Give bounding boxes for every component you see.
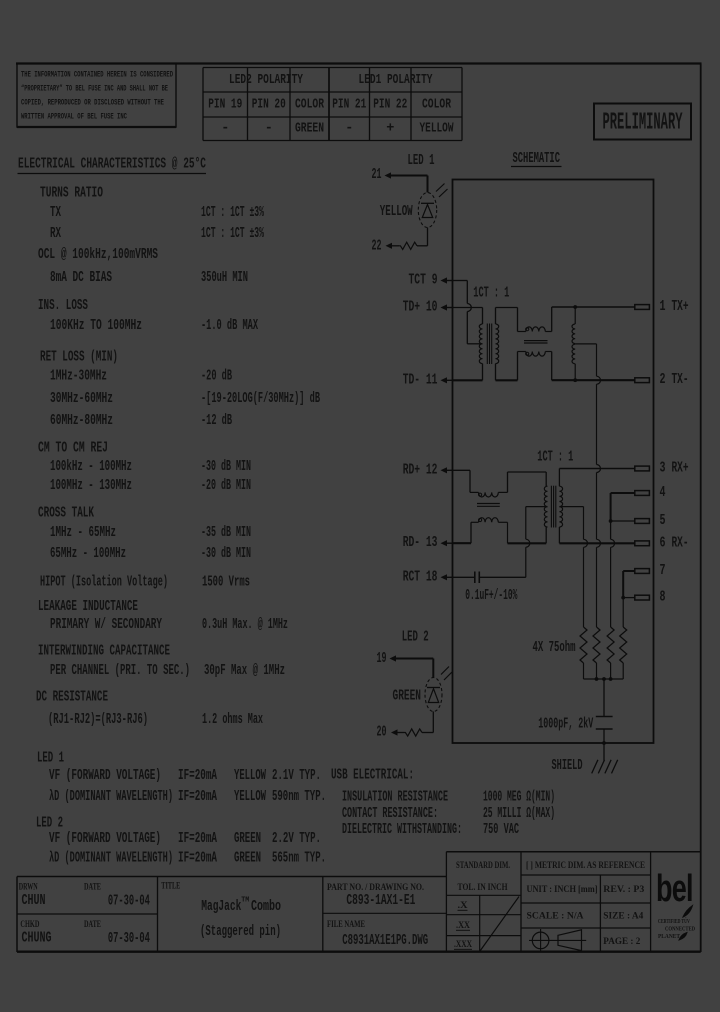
CMC2 core: [477, 503, 500, 505]
svg-text:-35 dB MIN: -35 dB MIN: [201, 525, 251, 541]
LED1 diode triangle: [422, 205, 432, 218]
wire to pin 3 pad: [559, 468, 634, 470]
svg-text:TOL. IN INCH: TOL. IN INCH: [458, 882, 508, 892]
svg-text:-20 dB: -20 dB: [201, 369, 232, 385]
svg-text:YELLOW: YELLOW: [234, 768, 266, 784]
center tap down: [525, 507, 527, 540]
svg-text:PRIMARY W/ SECONDARY: PRIMARY W/ SECONDARY: [50, 617, 162, 633]
svg-text:4X 75ohm: 4X 75ohm: [533, 640, 576, 656]
svg-text:100MHz - 130MHz: 100MHz - 130MHz: [50, 478, 132, 494]
LED2 light arrow 1: [441, 667, 449, 675]
svg-text:CERTIFIED TÜV: CERTIFIED TÜV: [658, 918, 690, 925]
T1 secondary winding: [496, 324, 499, 364]
pin 7 pad: [635, 569, 650, 574]
svg-text:SHIELD: SHIELD: [552, 758, 583, 774]
svg-text:INTERWINDING CAPACITANCE: INTERWINDING CAPACITANCE: [38, 644, 170, 660]
svg-text:TD- 11: TD- 11: [403, 372, 438, 388]
svg-text:+: +: [386, 122, 394, 137]
pin4 down to pin5 junction: [610, 493, 612, 521]
LED2 diode triangle: [428, 689, 438, 703]
svg-text:PIN 22: PIN 22: [373, 98, 407, 113]
resistor R3 bottom lead: [610, 663, 612, 679]
PRELIMINARY stamp box: [594, 104, 691, 140]
svg-text:1000pF, 2kV: 1000pF, 2kV: [538, 717, 593, 733]
CMC1 top coil exit: [545, 331, 551, 333]
LED2 light arrow 2: [444, 672, 452, 680]
wire pin19 to LED2: [395, 658, 433, 660]
svg-text:LED 1: LED 1: [37, 751, 64, 767]
T1 secondary bottom down: [495, 364, 497, 381]
svg-text:LED 2: LED 2: [36, 816, 63, 832]
wire TCT9 down to center tap: [466, 312, 468, 344]
svg-text:SIZE : A4: SIZE : A4: [603, 911, 644, 921]
.XX underline: [456, 929, 470, 931]
pins4/5 termination to resistor R3: [610, 547, 612, 627]
svg-text:65MHz - 100MHz: 65MHz - 100MHz: [50, 546, 126, 562]
CMC1 phase dot bottom: [526, 352, 529, 355]
svg-text:RET LOSS (MIN): RET LOSS (MIN): [40, 350, 118, 366]
svg-text:WRITTEN APPROVAL OF BEL FUSE I: WRITTEN APPROVAL OF BEL FUSE INC: [21, 112, 127, 122]
title block horizontals: [17, 876, 446, 878]
wire box to shield ground: [603, 743, 605, 761]
svg-text:DRWN: DRWN: [19, 882, 38, 892]
svg-text:TD+ 10: TD+ 10: [403, 300, 438, 316]
svg-text:LED1 POLARITY: LED1 POLARITY: [359, 73, 434, 88]
capacitor C2 1000pF plates: [596, 716, 613, 718]
svg-text:FILE NAME: FILE NAME: [327, 919, 365, 929]
svg-text:RX: RX: [50, 226, 61, 242]
wire TD+10 to T1 primary top: [453, 307, 483, 309]
svg-text:GREEN: GREEN: [234, 851, 261, 867]
wire pin21 to LED1 anode: [390, 175, 428, 177]
autotransformer bottom lead: [574, 364, 576, 380]
svg-text:MagJack: MagJack: [201, 899, 241, 915]
svg-text:30pF Max @ 1MHz: 30pF Max @ 1MHz: [204, 663, 285, 679]
svg-text:25 MILLI Ω(MAX): 25 MILLI Ω(MAX): [483, 806, 555, 822]
resistor R2 bottom lead: [596, 663, 598, 679]
svg-text:THE INFORMATION CONTAINED HERE: THE INFORMATION CONTAINED HEREIN IS CONS…: [21, 70, 173, 80]
wire bus to capacitor C2: [603, 679, 605, 717]
wire capacitor to center tap: [479, 576, 526, 578]
T1 primary winding: [479, 324, 482, 364]
svg-text:CHKD: CHKD: [20, 919, 39, 929]
svg-text:8: 8: [660, 590, 666, 606]
wire pin 4 pad: [611, 492, 635, 494]
pin 8 pad: [635, 595, 650, 600]
pin RCT 18 arrow: [441, 574, 448, 580]
svg-text:IF=20mA: IF=20mA: [178, 789, 217, 805]
wire to pin 2 pad thick: [552, 379, 635, 381]
svg-text:100kHz - 100MHz: 100kHz - 100MHz: [50, 459, 132, 475]
svg-text:RX-: RX-: [672, 535, 689, 551]
junction pins 4-5: [609, 519, 613, 523]
termination wire down: [596, 473, 598, 540]
CMC1 bottom coil: [518, 351, 526, 353]
RD- up into CMC2 bottom coil: [470, 522, 472, 543]
svg-text:PRELIMINARY: PRELIMINARY: [603, 110, 683, 137]
svg-text:ELECTRICAL CHARACTERISTICS @ 2: ELECTRICAL CHARACTERISTICS @ 25°C: [18, 156, 206, 173]
svg-text:RD+ 12: RD+ 12: [403, 462, 438, 478]
wire down to LED1: [427, 176, 429, 193]
T2 secondary top up: [558, 469, 560, 487]
svg-text:GREEN: GREEN: [393, 689, 422, 705]
pin RD+ 12 arrow: [441, 467, 448, 473]
svg-text:8mA DC BIAS: 8mA DC BIAS: [50, 270, 112, 286]
junction shield box: [602, 741, 606, 745]
svg-text:PIN 20: PIN 20: [252, 98, 286, 113]
notice bottom thick edge: [17, 126, 176, 128]
svg-text:07-30-04: 07-30-04: [108, 931, 150, 947]
svg-text:TX+: TX+: [672, 299, 689, 315]
svg-text:1.2 ohms Max: 1.2 ohms Max: [202, 712, 263, 728]
svg-text:2.1V TYP.: 2.1V TYP.: [272, 768, 321, 784]
svg-text:VF (FORWARD VOLTAGE): VF (FORWARD VOLTAGE): [49, 831, 161, 847]
wire up to T1 primary bottom: [482, 364, 484, 381]
pin 22 arrow: [386, 243, 393, 249]
pin TCT 9 arrow: [441, 277, 448, 283]
svg-text:1MHz - 65MHz: 1MHz - 65MHz: [50, 525, 116, 541]
hop over TD+ wire: [467, 304, 471, 312]
svg-text:DATE: DATE: [84, 919, 101, 929]
svg-text:USB ELECTRICAL:: USB ELECTRICAL:: [331, 768, 414, 784]
svg-text:1000 MEG Ω(MIN): 1000 MEG Ω(MIN): [483, 789, 555, 805]
svg-text:6: 6: [660, 535, 666, 551]
wire TD-11 thick: [453, 379, 483, 381]
svg-text:1CT : 1CT ±3%: 1CT : 1CT ±3%: [201, 205, 264, 221]
svg-text:λD (DOMINANT WAVELENGTH): λD (DOMINANT WAVELENGTH): [49, 851, 173, 867]
LED1 series resistor: [399, 242, 417, 249]
CMC2 top coil exit: [498, 491, 507, 493]
termination wire down: [596, 384, 598, 464]
termination wire down: [596, 344, 598, 376]
CMC2 top coil: [479, 492, 499, 497]
svg-text:CONTACT RESISTANCE:: CONTACT RESISTANCE:: [342, 806, 438, 822]
svg-text:PER CHANNEL (PRI. TO SEC.): PER CHANNEL (PRI. TO SEC.): [50, 663, 190, 679]
svg-text:INS. LOSS: INS. LOSS: [38, 298, 88, 314]
wire TCT9 down: [466, 281, 468, 304]
wire LED2 to resistor: [432, 712, 434, 733]
pin RD+ 12 stub wire: [446, 469, 453, 471]
svg-text:4: 4: [660, 485, 666, 501]
svg-text:TM: TM: [241, 897, 249, 905]
resistor R1 bottom lead: [583, 663, 585, 679]
LED2 cathode bar: [427, 687, 440, 689]
svg-text:LED 1: LED 1: [408, 153, 435, 169]
termination bus wire: [584, 678, 624, 680]
connector shield outline box: [453, 180, 654, 744]
junction bus cap feed: [602, 677, 606, 681]
svg-text:1: 1: [660, 299, 666, 315]
TX autotransformer winding upper: [572, 324, 575, 344]
T2 primary center tap wire: [526, 506, 548, 508]
svg-text:“PROPRIETARY” TO BEL FUSE INC: “PROPRIETARY” TO BEL FUSE INC AND SHALL …: [21, 84, 168, 94]
CMC2 phase dot top: [479, 493, 482, 496]
third angle projection cone: [552, 939, 587, 941]
termination wire to resistor R2: [596, 547, 598, 627]
CMC2 bottom coil exit: [498, 521, 507, 523]
wire into CMC2 top coil: [470, 491, 479, 493]
svg-text:0.1uF+/-10%: 0.1uF+/-10%: [465, 588, 517, 604]
junction bus R3: [609, 677, 613, 681]
wire RD+12 horizontal: [453, 469, 471, 471]
LED polarity tables grid: [203, 67, 462, 69]
svg-text:TITLE: TITLE: [161, 880, 180, 890]
svg-text:1CT : 1: 1CT : 1: [473, 285, 509, 301]
pin 19 arrow: [390, 655, 397, 661]
pin TD- 11 stub wire: [446, 379, 453, 381]
svg-text:PIN 19: PIN 19: [208, 98, 242, 113]
wire pin 7 pad: [623, 570, 635, 572]
svg-text:TX-: TX-: [672, 372, 689, 388]
pin RD- 13 arrow: [441, 540, 448, 546]
svg-text:SCALE : N/A: SCALE : N/A: [527, 911, 585, 921]
svg-text:DIELECTRIC WITHSTANDING:: DIELECTRIC WITHSTANDING:: [342, 822, 462, 838]
down to T2 primary: [545, 472, 547, 486]
svg-text:IF=20mA: IF=20mA: [178, 768, 217, 784]
svg-text:-: -: [265, 122, 273, 137]
hop over pin6 wire: [611, 539, 615, 547]
pin 1 pad: [635, 305, 650, 310]
svg-text:REV. : P3: REV. : P3: [603, 884, 645, 894]
svg-text:Combo: Combo: [251, 899, 281, 915]
svg-text:.XXX: .XXX: [454, 939, 472, 949]
svg-text:RD- 13: RD- 13: [403, 535, 438, 551]
T2 secondary winding: [559, 486, 562, 527]
svg-text:GREEN: GREEN: [295, 122, 324, 137]
svg-text:INSULATION RESISTANCE: INSULATION RESISTANCE: [342, 789, 448, 805]
tolerance diagonal line: [480, 897, 519, 952]
svg-text:PIN 21: PIN 21: [332, 98, 366, 113]
T2 core: [550, 486, 552, 528]
svg-text:YELLOW: YELLOW: [380, 204, 413, 220]
pin 4 pad: [635, 491, 650, 496]
resistor R1 75ohm: [580, 627, 587, 663]
svg-text:COLOR: COLOR: [295, 98, 325, 113]
svg-text:1MHz-30MHz: 1MHz-30MHz: [50, 369, 107, 385]
wire resistor to pin20: [397, 732, 404, 734]
down to pin2 wire: [551, 352, 553, 381]
svg-text:GREEN: GREEN: [234, 831, 261, 847]
junction pin1/autotransformer: [573, 305, 577, 309]
svg-text:3: 3: [660, 461, 666, 477]
pin 3 pad: [635, 466, 650, 471]
T2 secondary center tap wire: [559, 506, 583, 508]
pin RD- 13 stub wire: [446, 542, 453, 544]
down to CMC1 top coil: [517, 308, 519, 332]
T1 core: [486, 324, 488, 365]
CMC1 top coil: [518, 331, 526, 333]
up to T2 primary bottom: [545, 527, 547, 544]
svg-text:100KHz TO 100MHz: 100KHz TO 100MHz: [50, 318, 142, 334]
bel logo leaf swoosh: [683, 906, 693, 918]
svg-text:LEAKAGE INDUCTANCE: LEAKAGE INDUCTANCE: [38, 599, 138, 615]
T1 secondary top to choke: [496, 307, 518, 309]
.XXX underline: [454, 948, 472, 950]
svg-text:-12 dB: -12 dB: [201, 413, 232, 429]
svg-text:C893-1AX1-E1: C893-1AX1-E1: [346, 893, 415, 909]
page right frame line: [700, 64, 702, 953]
svg-text:RX+: RX+: [672, 461, 689, 477]
svg-text:LED 2: LED 2: [402, 630, 429, 646]
pin7 down to pin8 junction: [622, 571, 624, 598]
TX autotransformer winding lower: [572, 344, 575, 364]
pin 5 pad: [635, 519, 650, 524]
hop over RD- wire: [526, 539, 530, 547]
title block outer verticals: [16, 877, 18, 953]
pin TCT 9 stub wire: [446, 280, 453, 282]
svg-text:SCHEMATIC: SCHEMATIC: [513, 151, 561, 167]
wire C2 to shield box: [603, 729, 605, 743]
svg-text:CM TO CM REJ: CM TO CM REJ: [38, 441, 108, 457]
svg-text:LED2 POLARITY: LED2 POLARITY: [229, 73, 304, 88]
wire TCT9 to T1 primary center tap: [467, 343, 482, 345]
svg-text:[ ] METRIC DIM. AS REFERENCE: [ ] METRIC DIM. AS REFERENCE: [526, 860, 645, 870]
svg-text:.XX: .XX: [456, 920, 470, 930]
wire down to T1 primary: [482, 308, 484, 325]
wire pin 8 pad: [623, 597, 635, 599]
svg-text:(RJ1-RJ2)=(RJ3-RJ6): (RJ1-RJ2)=(RJ3-RJ6): [48, 712, 148, 728]
svg-text:5: 5: [660, 513, 666, 529]
svg-text:20: 20: [377, 725, 387, 741]
center tap down to RCT: [525, 547, 527, 577]
.X underline: [458, 909, 468, 911]
hop over pin6 wire: [584, 539, 588, 547]
svg-text:350uH MIN: 350uH MIN: [201, 270, 248, 286]
pin 2 pad: [635, 378, 650, 383]
pin 21 arrow: [385, 172, 392, 178]
pin 20 arrow: [391, 729, 398, 735]
proprietary notice box: [17, 64, 176, 128]
up to link wire: [507, 472, 509, 492]
svg-text:CONNECTED: CONNECTED: [665, 926, 695, 933]
svg-text:1500 Vrms: 1500 Vrms: [202, 575, 250, 591]
T2 primary winding: [544, 486, 547, 527]
svg-text:19: 19: [377, 651, 387, 667]
svg-text:COLOR: COLOR: [422, 98, 452, 113]
svg-text:565nm TYP.: 565nm TYP.: [272, 851, 326, 867]
svg-text:CHUNG: CHUNG: [22, 930, 52, 946]
svg-text:IF=20mA: IF=20mA: [178, 851, 217, 867]
resistor R2 75ohm: [593, 627, 600, 663]
svg-text:YELLOW: YELLOW: [234, 789, 266, 805]
link wire to T2 primary top: [508, 471, 547, 473]
third angle projection symbol circle: [532, 932, 549, 949]
svg-text:22: 22: [372, 239, 382, 255]
wire to pin 6 pad thick: [559, 542, 634, 544]
svg-text:-[19-20LOG(F/30MHz)] dB: -[19-20LOG(F/30MHz)] dB: [201, 391, 320, 407]
svg-text:PART NO. / DRAWING NO.: PART NO. / DRAWING NO.: [327, 882, 424, 892]
wire to T2 primary bottom thick: [508, 542, 547, 544]
svg-text:2: 2: [660, 372, 666, 388]
pin TD+ 10 arrow: [441, 304, 448, 310]
resistor R4 bottom lead: [622, 663, 624, 679]
RX termination to resistor R1: [583, 547, 585, 627]
svg-text:.X: .X: [458, 900, 469, 910]
wire down to LED2: [432, 659, 434, 678]
svg-text:-: -: [345, 122, 353, 137]
svg-text:21: 21: [372, 167, 382, 183]
svg-text:DATE: DATE: [84, 882, 101, 892]
svg-text:07-30-04: 07-30-04: [108, 893, 150, 909]
svg-text:-30 dB MIN: -30 dB MIN: [201, 459, 251, 475]
autotransformer tap to termination: [575, 343, 596, 345]
svg-text:2.2V TYP.: 2.2V TYP.: [272, 831, 321, 847]
resistor R3 75ohm: [607, 627, 614, 663]
svg-text:PAGE : 2: PAGE : 2: [603, 936, 640, 946]
LED2 circle (dashed): [425, 678, 442, 712]
svg-text:750 VAC: 750 VAC: [483, 822, 519, 838]
svg-text:CROSS TALK: CROSS TALK: [38, 506, 94, 522]
T2 secondary bottom down: [558, 527, 560, 543]
svg-text:UNIT : INCH [mm]: UNIT : INCH [mm]: [527, 884, 598, 894]
LED1 cathode bar: [421, 202, 434, 204]
svg-text:C8931AX1E1PG.DWG: C8931AX1E1PG.DWG: [342, 933, 428, 949]
wire RD-13 thick: [453, 542, 472, 544]
svg-text:COPIED, REPRODUCED OR DISCLOSE: COPIED, REPRODUCED OR DISCLOSED WITHOUT …: [21, 98, 164, 108]
wire pin 5 pad: [611, 520, 635, 522]
svg-text:30MHz-60MHz: 30MHz-60MHz: [50, 391, 113, 407]
page top frame line: [16, 62, 702, 64]
wire to LED1 resistor: [417, 245, 428, 247]
heading underline: [18, 173, 207, 175]
svg-text:-1.0 dB MAX: -1.0 dB MAX: [201, 318, 258, 334]
hop over pin2 wire: [597, 376, 601, 384]
svg-text:-: -: [221, 122, 229, 137]
T1 secondary top up: [495, 308, 497, 325]
CMC1 bottom coil exit: [545, 351, 551, 353]
svg-text:-20 dB MIN: -20 dB MIN: [201, 478, 251, 494]
wire RD+12 down: [469, 470, 471, 492]
svg-text:-30 dB MIN: -30 dB MIN: [201, 546, 251, 562]
hop over pin6 wire: [597, 539, 601, 547]
svg-text:DC RESISTANCE: DC RESISTANCE: [36, 690, 108, 706]
shield ground symbol: [592, 760, 598, 774]
pin RCT 18 stub wire: [446, 576, 453, 578]
LED1 circle (dashed): [418, 193, 436, 228]
LED2 series resistor: [404, 729, 422, 736]
svg-text:HIPOT (Isolation Voltage): HIPOT (Isolation Voltage): [40, 575, 168, 591]
svg-text:(Staggered pin): (Staggered pin): [200, 924, 281, 940]
svg-text:1CT : 1: 1CT : 1: [537, 449, 573, 465]
svg-text:CHUN: CHUN: [22, 893, 46, 909]
CMC2 bottom exit down: [507, 522, 509, 543]
svg-text:bel: bel: [656, 866, 693, 909]
pin TD+ 10 stub wire: [446, 307, 453, 309]
svg-text:7: 7: [660, 563, 666, 579]
SCHEMATIC title underline: [511, 166, 562, 168]
svg-text:0.3uH Max. @ 1MHz: 0.3uH Max. @ 1MHz: [202, 617, 288, 633]
pin TD- 11 arrow: [441, 377, 448, 383]
svg-text:1CT : 1CT ±3%: 1CT : 1CT ±3%: [201, 226, 264, 242]
T1 secondary bottom stub thick: [496, 379, 518, 381]
LED1 light arrow 2: [439, 189, 448, 197]
capacitor C1 0.1uF plates: [474, 572, 476, 584]
CMC2 phase dot bottom: [479, 518, 482, 521]
LED1 light arrow 1: [436, 184, 445, 192]
wire to LED2 resistor: [422, 732, 433, 734]
up to CMC1 bottom coil: [517, 352, 519, 381]
svg-text:STANDARD DIM.: STANDARD DIM.: [456, 860, 510, 870]
wire LED1 to resistor: [427, 228, 429, 246]
svg-text:VF (FORWARD VOLTAGE): VF (FORWARD VOLTAGE): [49, 768, 161, 784]
svg-text:PLANET: PLANET: [658, 933, 681, 940]
wire TCT9 horizontal: [453, 280, 468, 282]
svg-text:YELLOW: YELLOW: [420, 122, 455, 137]
svg-text:OCL @ 100kHz,100mVRMS: OCL @ 100kHz,100mVRMS: [38, 247, 158, 263]
pin 6 pad: [635, 541, 650, 546]
svg-text:TCT 9: TCT 9: [409, 273, 438, 289]
CMC1 core: [524, 340, 548, 342]
